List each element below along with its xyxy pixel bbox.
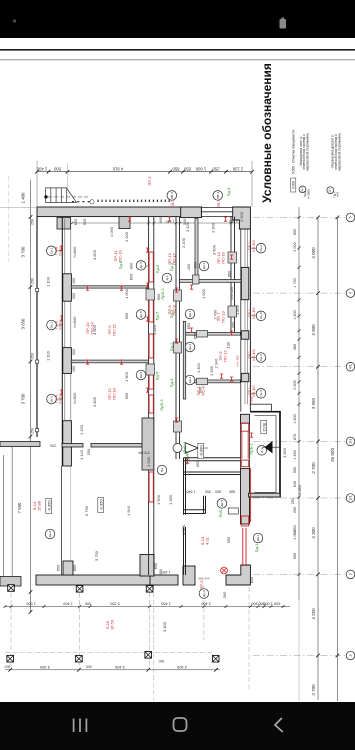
svg-text:3 400: 3 400	[114, 665, 125, 670]
svg-text:130: 130	[226, 341, 231, 348]
red lintel texts	[113, 249, 122, 261]
svg-text:950: 950	[205, 489, 211, 493]
svg-text:ПВ-2: ПВ-2	[170, 192, 174, 199]
right chain A detail dims	[298, 207, 300, 600]
svg-text:250: 250	[86, 448, 91, 455]
svg-text:3 800: 3 800	[92, 396, 97, 407]
walk line marks	[72, 201, 90, 202]
red circled mark at corner	[221, 567, 228, 574]
svg-text:5 750: 5 750	[94, 550, 99, 561]
svg-text:550: 550	[293, 467, 297, 473]
svg-text:385: 385	[293, 344, 297, 350]
svg-text:1/1: 1/1	[349, 439, 353, 444]
svg-text:16.53: 16.53	[110, 619, 115, 630]
svg-text:1 400: 1 400	[36, 167, 47, 172]
svg-text:300: 300	[159, 659, 165, 663]
svg-text:1 000: 1 000	[181, 524, 186, 535]
svg-text:h=600: h=600	[72, 316, 77, 328]
svg-text:Пд-4: Пд-4	[226, 187, 231, 197]
corridor right wall	[176, 217, 180, 459]
svg-text:1 450: 1 450	[161, 602, 171, 606]
svg-text:Дв-4: Дв-4	[188, 376, 192, 383]
svg-text:300: 300	[251, 602, 257, 606]
svg-text:Д-1: Д-1	[165, 275, 169, 280]
svg-text:400: 400	[71, 365, 76, 372]
svg-text:570: 570	[144, 451, 150, 455]
entrance stairs	[46, 188, 77, 203]
svg-text:4: 4	[349, 292, 353, 294]
svg-text:950: 950	[227, 270, 232, 277]
svg-text:маркировкой перемычки): маркировкой перемычки)	[337, 133, 341, 170]
drawing frame inner line	[0, 59, 355, 60]
svg-text:680: 680	[229, 489, 235, 493]
navigation bar	[0, 702, 355, 750]
porch grid dashed lines	[5, 585, 249, 701]
svg-text:350: 350	[231, 321, 236, 328]
svg-text:800: 800	[198, 386, 203, 393]
red wall tick marks	[60, 246, 63, 250]
svg-text:600: 600	[72, 564, 77, 571]
terrace edge lines bottom-left	[2, 455, 4, 584]
svg-text:250: 250	[31, 278, 35, 284]
svg-text:Пд: Пд	[160, 468, 164, 472]
svg-text:250: 250	[31, 219, 35, 225]
stair shaft	[250, 404, 271, 412]
nav home icon	[174, 718, 187, 731]
svg-text:1 600: 1 600	[195, 167, 206, 172]
svg-text:3 650: 3 650	[21, 318, 26, 329]
svg-text:1 300: 1 300	[196, 362, 201, 373]
svg-text:1 000: 1 000	[124, 288, 129, 299]
svg-text:720: 720	[229, 293, 234, 300]
svg-text:ПС-13: ПС-13	[221, 310, 226, 322]
svg-text:4 250: 4 250	[311, 608, 316, 620]
svg-text:600: 600	[249, 576, 254, 583]
svg-text:2 340: 2 340	[214, 358, 219, 369]
svg-text:3 400: 3 400	[176, 665, 187, 670]
right chain B axis dims	[317, 217, 319, 700]
svg-text:300: 300	[71, 348, 76, 355]
svg-text:1 000: 1 000	[201, 288, 206, 299]
svg-text:4.21: 4.21	[205, 536, 210, 545]
svg-text:h=1 000: h=1 000	[198, 577, 209, 581]
vertical partition first right room	[195, 219, 198, 280]
svg-text:800: 800	[192, 261, 197, 268]
left dimension chain	[30, 180, 32, 612]
drawing frame top line	[0, 49, 355, 51]
svg-text:1 100: 1 100	[45, 350, 50, 361]
svg-text:ПВ-2: ПВ-2	[171, 200, 175, 207]
left wing bottom wall	[0, 442, 40, 447]
svg-text:Пд-6: Пд-6	[155, 371, 160, 381]
stub wall below top wall	[119, 217, 130, 229]
svg-text:Ок-3: Ок-3	[259, 354, 263, 361]
svg-text:Пд-1: Пд-1	[254, 543, 259, 553]
svg-text:300: 300	[5, 665, 11, 669]
svg-text:6 790: 6 790	[84, 505, 89, 516]
svg-text:ПВ-3: ПВ-3	[216, 192, 220, 199]
svg-text:300: 300	[195, 460, 200, 467]
svg-text:250: 250	[212, 167, 220, 172]
svg-text:400: 400	[71, 277, 76, 284]
svg-text:1 140: 1 140	[166, 220, 175, 224]
svg-text:h=1000: h=1000	[307, 189, 311, 199]
svg-text:0.000: 0.000	[292, 181, 296, 189]
left outer wall: face line	[61, 217, 63, 466]
section triangle	[265, 441, 273, 453]
bottom dimension chain row1	[5, 606, 290, 608]
corridor-right lower wall with red openings	[241, 414, 250, 423]
svg-text:h=1 400: h=1 400	[252, 307, 256, 319]
svg-text:250: 250	[293, 507, 297, 513]
svg-text:300: 300	[86, 665, 92, 669]
svg-text:ПС-16: ПС-16	[221, 251, 226, 263]
svg-text:1 460: 1 460	[293, 450, 297, 460]
svg-text:0.000 - Отметка поверхности: 0.000 - Отметка поверхности	[291, 130, 295, 174]
svg-text:h=1 400: h=1 400	[236, 355, 240, 366]
right axis bubbles	[346, 213, 355, 222]
svg-text:Пд-8: Пд-8	[118, 260, 123, 270]
svg-text:550: 550	[293, 553, 297, 559]
svg-text:250: 250	[31, 428, 35, 434]
svg-text:4 000: 4 000	[311, 247, 316, 259]
svg-text:Пд-5: Пд-5	[184, 450, 189, 460]
section arrow left	[185, 443, 198, 454]
svg-text:1 140: 1 140	[79, 449, 84, 460]
partitions left wing	[71, 286, 148, 288]
svg-text:3 700: 3 700	[311, 684, 316, 696]
secondary dim line under top wall	[72, 222, 245, 224]
svg-text:26 800: 26 800	[330, 448, 335, 462]
svg-text:4 300: 4 300	[311, 527, 316, 539]
svg-text:1 400: 1 400	[63, 602, 73, 606]
svg-text:-0.080: -0.080	[198, 445, 203, 457]
svg-text:900: 900	[124, 392, 129, 399]
left wall window glazing	[65, 219, 71, 421]
svg-text:140: 140	[138, 451, 144, 455]
svg-text:1 900: 1 900	[124, 371, 129, 382]
svg-text:Дв-4: Дв-4	[139, 262, 143, 269]
svg-text:650: 650	[192, 332, 197, 339]
door blocks	[146, 252, 237, 432]
svg-text:ПС-18: ПС-18	[112, 387, 117, 399]
svg-text:1 000: 1 000	[229, 220, 238, 224]
svg-text:4/1: 4/1	[349, 364, 353, 369]
svg-text:650: 650	[56, 564, 61, 571]
bottom-right corner wall	[226, 565, 250, 585]
svg-text:1 500: 1 500	[156, 494, 161, 505]
svg-text:ПрБ-1: ПрБ-1	[248, 443, 253, 455]
svg-text:Ок-3: Ок-3	[259, 312, 263, 319]
svg-text:1 790: 1 790	[293, 278, 297, 288]
svg-text:h=1 400: h=1 400	[252, 240, 256, 252]
svg-text:Ок-3: Ок-3	[259, 390, 263, 397]
svg-text:3 400: 3 400	[162, 621, 167, 632]
svg-text:маркировкой перемычки): маркировкой перемычки)	[306, 133, 310, 170]
interior wall x=231	[231, 217, 235, 333]
svg-text:2 000: 2 000	[293, 242, 297, 252]
svg-text:3 680: 3 680	[297, 484, 302, 495]
right wall piers	[241, 267, 249, 299]
svg-text:7 550: 7 550	[17, 502, 22, 513]
red window lintel labels right wall	[248, 240, 256, 252]
svg-text:3 600: 3 600	[92, 249, 97, 260]
top-right corner wall	[233, 207, 251, 229]
svg-text:1 600: 1 600	[235, 304, 240, 315]
svg-text:850: 850	[172, 167, 180, 172]
svg-text:1 400: 1 400	[21, 192, 26, 203]
svg-text:4 910: 4 910	[112, 167, 123, 172]
svg-text:ПС-15: ПС-15	[112, 323, 117, 335]
svg-text:ПВ-3: ПВ-3	[217, 200, 221, 207]
svg-text:120: 120	[229, 286, 234, 293]
svg-text:Пд-4: Пд-4	[169, 378, 174, 388]
bottom porch wall	[36, 575, 161, 585]
svg-text:600: 600	[73, 218, 78, 225]
nav back icon	[275, 718, 283, 732]
svg-text:250: 250	[31, 353, 35, 359]
status bar battery icon	[280, 19, 287, 29]
svg-text:250: 250	[290, 497, 295, 504]
svg-text:500: 500	[85, 602, 91, 606]
partitions right wing	[180, 280, 242, 283]
svg-text:2: 2	[349, 655, 353, 657]
svg-text:900: 900	[156, 293, 161, 300]
svg-text:400: 400	[186, 263, 191, 270]
svg-text:800: 800	[215, 489, 221, 493]
svg-text:Ок-1: Ок-1	[50, 321, 54, 328]
vertical spine partition right wing	[183, 321, 185, 399]
leaders	[56, 248, 256, 399]
svg-text:3 700: 3 700	[21, 246, 26, 257]
svg-text:Дв-2: Дв-2	[202, 590, 206, 597]
svg-text:3 600: 3 600	[212, 244, 217, 255]
svg-text:Ок-2: Ок-2	[259, 245, 263, 252]
svg-text:550: 550	[226, 536, 231, 543]
svg-text:Пд-6: Пд-6	[155, 264, 160, 274]
svg-text:1 150: 1 150	[79, 424, 84, 435]
svg-text:3 950: 3 950	[282, 447, 287, 458]
svg-text:550: 550	[183, 167, 191, 172]
status bar notification dot	[13, 19, 16, 22]
svg-text:Пд-2: Пд-2	[169, 262, 174, 272]
svg-text:250: 250	[50, 444, 56, 448]
svg-text:1 050: 1 050	[292, 529, 297, 540]
svg-text:Дв-4: Дв-4	[188, 343, 192, 350]
svg-text:3 800: 3 800	[92, 324, 97, 335]
svg-text:3 350: 3 350	[39, 665, 50, 670]
svg-text:h=600: h=600	[72, 246, 77, 258]
svg-text:2 400: 2 400	[201, 602, 211, 606]
svg-text:300: 300	[71, 292, 76, 299]
svg-text:3 700: 3 700	[21, 393, 26, 404]
svg-text:-0.350: -0.350	[46, 500, 51, 512]
svg-text:4 940: 4 940	[126, 505, 131, 516]
svg-text:600: 600	[158, 216, 163, 223]
svg-text:1 500: 1 500	[26, 602, 36, 606]
svg-text:Условные обозначения: Условные обозначения	[260, 63, 274, 203]
svg-text:-0.350: -0.350	[98, 499, 103, 511]
boxed labels	[46, 499, 52, 514]
svg-text:2 000: 2 000	[293, 380, 297, 390]
svg-text:Дв-1: Дв-1	[256, 534, 260, 541]
svg-text:Дв-6: Дв-6	[48, 530, 52, 537]
svg-text:2 300: 2 300	[210, 222, 215, 233]
status bar	[0, 0, 355, 38]
bathroom block	[184, 458, 241, 575]
svg-text:3 900: 3 900	[311, 324, 316, 336]
svg-text:2 930: 2 930	[209, 365, 214, 376]
svg-text:4 050: 4 050	[109, 226, 114, 237]
svg-text:Дв-4: Дв-4	[202, 262, 206, 269]
red window labels left wall	[55, 246, 63, 256]
svg-text:Пд-3: Пд-3	[169, 309, 174, 319]
svg-text:1 530: 1 530	[146, 456, 151, 467]
svg-text:900: 900	[124, 312, 129, 319]
svg-text:300: 300	[182, 218, 187, 225]
svg-text:Дв-4: Дв-4	[188, 310, 192, 317]
red new wall segments on corridor-left	[149, 252, 153, 502]
svg-text:600: 600	[128, 273, 133, 280]
svg-text:5 350: 5 350	[110, 602, 120, 606]
svg-text:3: 3	[349, 573, 353, 575]
svg-text:650: 650	[186, 322, 191, 329]
svg-text:5: 5	[349, 216, 353, 218]
legend item 0	[291, 130, 342, 199]
svg-text:Ок-1: Ок-1	[50, 395, 54, 402]
axis dash lines to bubbles	[253, 217, 345, 655]
svg-text:Дв-8: Дв-8	[220, 500, 224, 507]
svg-text:5 220: 5 220	[152, 324, 157, 335]
top outer wall	[37, 207, 201, 217]
left wall piers	[63, 274, 72, 301]
top dimension chain	[37, 171, 252, 173]
svg-text:3/1: 3/1	[349, 496, 353, 501]
svg-text:870: 870	[293, 434, 297, 440]
svg-text:h=1 400: h=1 400	[252, 349, 256, 361]
svg-text:1 600: 1 600	[293, 310, 297, 320]
bottom dimension chain row2	[5, 669, 220, 671]
svg-text:500: 500	[53, 167, 61, 172]
porch columns	[7, 585, 219, 662]
svg-text:h=600: h=600	[72, 392, 77, 404]
svg-text:2 200: 2 200	[124, 231, 129, 242]
svg-text:Дв-5: Дв-5	[139, 371, 143, 378]
svg-text:1 280: 1 280	[168, 494, 173, 505]
svg-text:СУШ: СУШ	[261, 422, 266, 431]
shaft bottom wall	[249, 493, 280, 497]
svg-text:15.88: 15.88	[37, 500, 42, 511]
svg-text:А-1: А-1	[260, 448, 264, 453]
svg-text:1 100: 1 100	[45, 276, 50, 287]
svg-text:2 450: 2 450	[213, 309, 218, 320]
svg-text:500: 500	[82, 218, 87, 225]
svg-text:1 450: 1 450	[162, 570, 171, 574]
svg-text:ПрБ-3: ПрБ-3	[159, 399, 164, 411]
svg-text:1 000: 1 000	[263, 602, 273, 606]
svg-text:ПС-12: ПС-12	[223, 349, 228, 361]
corridor left wall	[149, 217, 154, 575]
nav recent apps icon	[74, 719, 87, 733]
svg-text:1 600: 1 600	[293, 414, 297, 424]
svg-text:2 000: 2 000	[239, 211, 244, 222]
red boxes / lines right side	[241, 423, 250, 566]
stair bay edge line	[36, 217, 38, 437]
right chain C total	[336, 217, 338, 701]
svg-text:2 700: 2 700	[311, 462, 316, 474]
svg-text:600: 600	[274, 602, 280, 606]
svg-text:Ок-1: Ок-1	[50, 247, 54, 254]
svg-text:1 540: 1 540	[187, 489, 196, 493]
svg-text:650: 650	[153, 562, 158, 569]
svg-text:h=1 400: h=1 400	[252, 385, 256, 397]
svg-text:2 200: 2 200	[181, 237, 186, 248]
svg-text:ПС-19: ПС-19	[118, 249, 123, 261]
svg-text:h=0: h=0	[336, 192, 340, 197]
svg-text:650: 650	[293, 229, 297, 235]
svg-text:Дв-5: Дв-5	[139, 311, 143, 318]
svg-text:Пд-2: Пд-2	[169, 342, 174, 352]
pier under top wall left	[57, 218, 71, 230]
svg-text:2 130: 2 130	[232, 167, 243, 172]
svg-text:800: 800	[128, 262, 133, 269]
top wall window opening	[201, 207, 232, 216]
svg-text:ПР-2: ПР-2	[147, 176, 152, 186]
svg-text:Пд-2: Пд-2	[155, 311, 160, 321]
svg-text:3 950: 3 950	[311, 397, 316, 409]
svg-text:300: 300	[222, 591, 227, 598]
mark bubbles	[47, 246, 57, 256]
svg-text:950: 950	[184, 457, 189, 464]
right outer wall: face lines	[240, 229, 242, 412]
